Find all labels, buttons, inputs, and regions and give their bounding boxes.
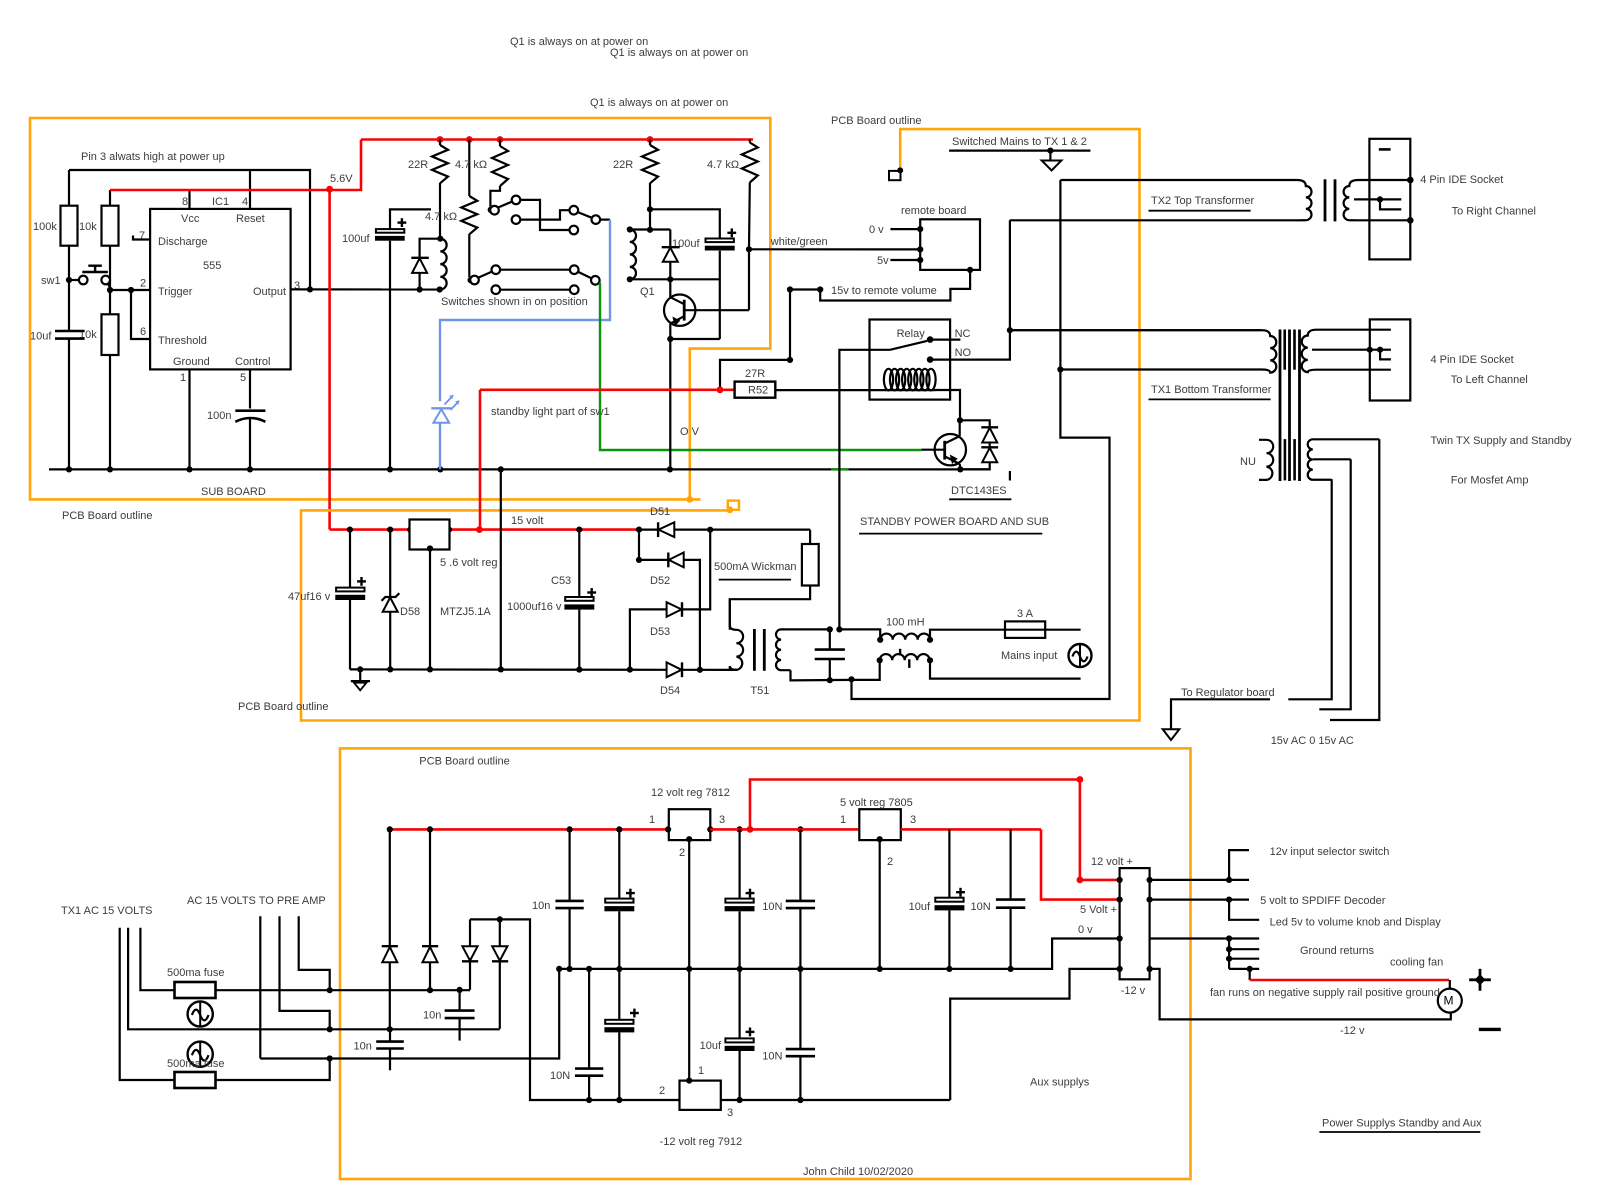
svg-text:For Mosfet Amp: For Mosfet Amp xyxy=(1451,474,1529,486)
svg-text:sw1: sw1 xyxy=(41,275,61,287)
node remote bottom pin xyxy=(967,267,973,273)
node D52 cathode xyxy=(636,557,642,563)
transformer T51 secondary xyxy=(776,629,830,670)
node fan positive tap xyxy=(1247,966,1253,972)
pin 4 wire up xyxy=(249,170,251,209)
svg-text:10n: 10n xyxy=(532,900,550,912)
node switched mains tap xyxy=(1047,148,1053,154)
LED standby blue xyxy=(431,407,451,409)
node +raw rail dots xyxy=(567,826,573,832)
wire C53 bottom xyxy=(578,610,580,670)
svg-text:T51: T51 xyxy=(750,685,769,697)
regulator 7805 xyxy=(859,809,901,840)
svg-text:John Child 10/02/2020: John Child 10/02/2020 xyxy=(803,1166,913,1178)
transformer TX1 secondary xyxy=(1302,330,1391,372)
wire relay common from mains xyxy=(839,350,890,630)
wire TX1 lead A xyxy=(140,928,174,990)
transistor DTC143ES xyxy=(935,434,966,465)
node D2 top xyxy=(427,826,433,832)
wire green overlay on 0V rail xyxy=(831,468,849,470)
diode flyback left xyxy=(420,239,441,258)
svg-text:Discharge: Discharge xyxy=(158,236,208,248)
pin 2 wire xyxy=(110,289,150,291)
wire remote 0v stub xyxy=(890,228,920,230)
resistor 4.7k right (base) xyxy=(742,143,758,183)
svg-text:Q1 is always on at power on: Q1 is always on at power on xyxy=(610,47,748,59)
wire choke bottom left xyxy=(852,660,880,680)
wire sw1a crossover B xyxy=(520,210,569,219)
svg-text:Output: Output xyxy=(253,286,286,298)
node -12 rail dots xyxy=(586,1097,592,1103)
resistor R52 27R xyxy=(735,382,776,398)
switch spare row contacts xyxy=(492,285,501,294)
wire mains top to choke xyxy=(839,629,880,638)
wire 15v to remote volume net xyxy=(820,270,970,301)
wire TX1 top line xyxy=(1010,329,1262,331)
svg-text:Ground returns: Ground returns xyxy=(1300,945,1374,957)
svg-text:white/green: white/green xyxy=(770,236,828,248)
node 15v remote A xyxy=(787,286,793,292)
svg-text:Led 5v to volume knob and Disp: Led 5v to volume knob and Display xyxy=(1270,916,1442,928)
wire 100uf top lead xyxy=(390,209,431,229)
node choke bottom terminals xyxy=(877,657,883,663)
node 5v branch xyxy=(1226,897,1232,903)
node TX1 tap dots xyxy=(1367,347,1373,353)
wire mains live out xyxy=(1045,629,1080,631)
diode D4 xyxy=(499,919,501,946)
diode flyback right xyxy=(669,230,671,248)
PCB board outline - standby power board xyxy=(301,129,1140,720)
svg-text:Q1 is always on at power on: Q1 is always on at power on xyxy=(590,97,728,109)
wire 100uf right bottom lead xyxy=(719,251,721,339)
svg-text:1: 1 xyxy=(698,1065,704,1077)
pin 3 output wire xyxy=(291,288,440,290)
fuse 500ma lower xyxy=(175,1072,216,1088)
wire choke top to fuse xyxy=(930,630,1005,640)
wire 10n A lower stub xyxy=(459,1018,461,1041)
wire TX2-top to TX1-bottom riser xyxy=(852,180,1110,699)
wire fuse lower out xyxy=(216,1059,330,1080)
svg-text:Control: Control xyxy=(235,356,270,368)
resistor 100k xyxy=(61,206,78,246)
wire red 15 volt rail xyxy=(330,528,639,531)
wire to blue led net xyxy=(600,219,610,221)
svg-text:10N: 10N xyxy=(550,1070,570,1082)
connector aux output header xyxy=(1120,868,1150,979)
resistor 10k lower xyxy=(102,314,119,355)
svg-text:D58: D58 xyxy=(400,606,420,618)
wire AC rail 1 xyxy=(216,989,471,991)
svg-text:15 volt: 15 volt xyxy=(511,515,543,527)
svg-text:0 v: 0 v xyxy=(869,224,884,236)
svg-text:5 Volt +: 5 Volt + xyxy=(1080,904,1117,916)
wire 0V riser from sub board xyxy=(500,469,502,669)
transformer NU winding right xyxy=(1308,439,1380,479)
node red 12v corners xyxy=(1077,776,1084,783)
svg-text:1: 1 xyxy=(649,814,655,826)
node 7805 pin2 xyxy=(877,836,883,842)
svg-text:47uf16 v: 47uf16 v xyxy=(288,591,331,603)
node TX2 tap xyxy=(1377,196,1383,202)
svg-text:100k: 100k xyxy=(33,221,57,233)
node coil right top xyxy=(627,226,633,232)
node mains neutral junction xyxy=(848,676,854,682)
wire choke bottom right xyxy=(930,660,1081,678)
wire wickman bottom to T51 xyxy=(730,586,810,630)
node T51 top junctions xyxy=(827,626,833,632)
ground symbol middle board xyxy=(357,666,363,672)
wire 7812 pin2 down to 0V and 7912 pin1 xyxy=(688,840,690,1081)
wire 15v net to R52 node xyxy=(720,290,790,391)
node Q1 emitter junction xyxy=(667,336,673,342)
wire relay coil right lead xyxy=(936,390,961,420)
svg-text:D53: D53 xyxy=(650,626,670,638)
wire 10n cap A stub xyxy=(459,990,461,1011)
node diode left anode xyxy=(417,286,423,292)
switch sw2 common contact xyxy=(468,277,475,284)
node D51 anode rail junction xyxy=(707,527,713,533)
node Q1 collector junction xyxy=(667,276,673,282)
wire red 12v+ to connector xyxy=(750,780,1120,880)
node D4 top junction xyxy=(497,916,503,922)
motor M cooling fan xyxy=(1438,989,1462,1013)
node 5.6V junction xyxy=(326,186,333,193)
wire filter cap bottom xyxy=(829,659,831,680)
svg-text:cooling fan: cooling fan xyxy=(1390,956,1443,968)
relay coil xyxy=(884,369,893,391)
switch sw1a common contact xyxy=(488,207,495,214)
svg-text:12v input selector switch: 12v input selector switch xyxy=(1270,846,1390,858)
wire trigger-threshold link xyxy=(131,290,150,339)
wire red 15 volt to R52 xyxy=(480,388,735,391)
node output junction xyxy=(307,286,313,292)
wire 10k top to 5.6V xyxy=(109,190,111,206)
node 0V riser junction xyxy=(498,666,504,672)
wire preamp lead 2 xyxy=(280,916,330,1029)
diode pair base-emitter xyxy=(960,420,990,427)
svg-text:NU: NU xyxy=(1240,456,1256,468)
wire base from resistor xyxy=(748,249,750,310)
wire C53 top xyxy=(578,530,580,597)
wire 22R to 100uf right xyxy=(650,209,720,238)
svg-text:1000uf16 v: 1000uf16 v xyxy=(507,601,562,613)
node TX1 bottom junction xyxy=(1057,366,1063,372)
wire 100k top xyxy=(68,170,70,206)
node trigger junction xyxy=(107,287,113,293)
svg-text:Aux supplys: Aux supplys xyxy=(1030,1076,1090,1088)
node relay arm contact xyxy=(927,336,934,343)
svg-text:100n: 100n xyxy=(207,410,231,422)
capacitor 100n xyxy=(235,409,265,412)
wire spare row xyxy=(500,289,570,291)
node relay NO contact xyxy=(927,356,934,363)
remote board box xyxy=(920,219,980,270)
svg-text:TX1 AC 15 VOLTS: TX1 AC 15 VOLTS xyxy=(61,905,153,917)
svg-text:4.7 kΩ: 4.7 kΩ xyxy=(455,159,487,171)
wire 10k lower to ground xyxy=(109,355,111,469)
node D53 anode xyxy=(627,667,633,673)
svg-text:Mains input: Mains input xyxy=(1001,650,1057,662)
svg-text:10k: 10k xyxy=(79,221,97,233)
wire LED to ground xyxy=(439,423,441,469)
svg-text:6: 6 xyxy=(140,326,146,338)
node AC rail3 junction xyxy=(327,1055,333,1061)
minus terminal mark xyxy=(1479,1028,1501,1031)
svg-text:4 Pin IDE Socket: 4 Pin IDE Socket xyxy=(1431,354,1514,366)
svg-text:-12 volt reg 7912: -12 volt reg 7912 xyxy=(660,1136,743,1148)
PCB board outline - bottom aux board xyxy=(340,748,1191,1179)
node red rail junctions xyxy=(437,136,444,143)
svg-text:Q1: Q1 xyxy=(640,286,655,298)
node 12v branch xyxy=(1226,877,1232,883)
wire -12 rail xyxy=(721,1099,950,1101)
svg-text:3: 3 xyxy=(910,814,916,826)
svg-text:12 volt +: 12 volt + xyxy=(1091,856,1133,868)
wire 10uf to ground xyxy=(68,339,70,470)
node DTC emitter xyxy=(957,466,963,472)
wire TX2 secondary tap xyxy=(1354,199,1401,209)
wire remote 5v stub xyxy=(890,259,920,261)
svg-text:0 v: 0 v xyxy=(1078,924,1093,936)
svg-text:Relay: Relay xyxy=(897,328,926,340)
AC source symbol 1 xyxy=(188,1001,213,1026)
contact sw2 right xyxy=(570,265,579,274)
wire +rail top red xyxy=(361,138,753,141)
connector 4 pin IDE socket right channel xyxy=(1369,139,1410,260)
wire pin3-high net top xyxy=(69,170,310,289)
svg-text:O V: O V xyxy=(680,426,700,438)
node 15v rail red junction xyxy=(476,526,483,533)
resistor 4.7k middle-left xyxy=(461,196,477,234)
wire NU sec 3 xyxy=(1288,479,1331,699)
transformer TX2 primary xyxy=(1010,180,1312,220)
transformer T51 core xyxy=(753,629,756,671)
wire ground return stubs xyxy=(1228,939,1230,969)
wire 12v output to selector xyxy=(1150,879,1249,881)
wire Q1 emitter xyxy=(669,324,671,339)
capacitor 10n across 7812 input xyxy=(568,829,570,901)
diode D3 xyxy=(469,919,471,946)
pin 7 stub xyxy=(133,236,150,240)
svg-text:AC 15 VOLTS TO PRE AMP: AC 15 VOLTS TO PRE AMP xyxy=(187,895,326,907)
node choke top terminals xyxy=(877,637,883,643)
plus terminal mark xyxy=(1469,978,1491,981)
svg-text:8: 8 xyxy=(182,196,188,208)
wire 100k bottom to sw1 xyxy=(68,246,70,280)
svg-text:10n: 10n xyxy=(354,1040,372,1052)
node coil left bottom xyxy=(437,286,443,292)
switch sw1b pole contact xyxy=(570,206,579,215)
wire 12v selector stub xyxy=(1229,850,1249,880)
svg-text:500mA Wickman: 500mA Wickman xyxy=(714,561,797,573)
svg-text:2: 2 xyxy=(887,856,893,868)
wire 5.6V red net xyxy=(110,140,361,191)
transformer TX2 core xyxy=(1324,179,1327,221)
wire coil top link xyxy=(630,228,671,230)
node C53 bottom xyxy=(576,667,582,673)
transformer T51 primary xyxy=(729,599,731,627)
svg-text:10N: 10N xyxy=(762,1050,782,1062)
switch sw2 arm xyxy=(478,272,492,278)
wire coil bottom link xyxy=(630,278,720,280)
wire TX1 lead B (centre) xyxy=(128,928,390,1030)
wire 47uf top xyxy=(349,530,351,588)
svg-text:5: 5 xyxy=(240,372,246,384)
wire 0V rail middle board xyxy=(349,668,351,671)
node ground returns chain xyxy=(1226,935,1232,941)
wire 22R link down xyxy=(649,209,651,230)
svg-text:22R: 22R xyxy=(408,159,428,171)
transformer TX2 secondary xyxy=(1344,180,1410,220)
wire 5v output xyxy=(1150,898,1249,900)
wire fan positive red xyxy=(1249,969,1251,980)
node filter cap bottom xyxy=(827,677,833,683)
svg-text:1: 1 xyxy=(840,814,846,826)
wire relay NC stub xyxy=(930,339,960,341)
svg-text:5 .6 volt reg: 5 .6 volt reg xyxy=(440,557,497,569)
wire R52 to relay coil xyxy=(775,389,935,391)
transformer TX1 primary xyxy=(1010,330,1276,372)
svg-text:5 volt to SPDIFF Decoder: 5 volt to SPDIFF Decoder xyxy=(1260,895,1386,907)
wire TX1 lead C xyxy=(120,928,174,1080)
capacitor electrolytic 7812 input xyxy=(626,892,635,894)
resistor 10k upper xyxy=(102,206,119,246)
switch sw2b arm xyxy=(578,272,591,278)
svg-text:2: 2 xyxy=(659,1085,665,1097)
svg-text:NO: NO xyxy=(955,347,972,359)
relay box xyxy=(870,320,951,400)
svg-text:500ma fuse: 500ma fuse xyxy=(167,967,224,979)
node connector right pins xyxy=(1147,877,1153,883)
resistor 22R left xyxy=(432,145,448,183)
resistor 4.7k switch top xyxy=(492,146,508,186)
svg-text:100 mH: 100 mH xyxy=(886,616,925,628)
svg-text:standby light part of sw1: standby light part of sw1 xyxy=(491,406,610,418)
svg-text:M: M xyxy=(1444,993,1454,1007)
node 15v rail dots xyxy=(347,527,353,533)
node mid rail junctions xyxy=(556,966,562,972)
svg-text:DTC143ES: DTC143ES xyxy=(951,485,1007,497)
diode D1 xyxy=(389,829,391,946)
fuse 500ma upper xyxy=(175,982,216,998)
wire 4.7k to switch common xyxy=(490,186,500,207)
svg-text:remote board: remote board xyxy=(901,205,966,217)
svg-text:fan runs on negative supply ra: fan runs on negative supply rail positiv… xyxy=(1210,987,1440,999)
wire 47uf bottom xyxy=(349,600,351,670)
svg-text:Ground: Ground xyxy=(173,356,210,368)
svg-text:10N: 10N xyxy=(971,901,991,913)
svg-text:-12 v: -12 v xyxy=(1121,985,1146,997)
node D1 top xyxy=(387,826,393,832)
svg-text:Vcc: Vcc xyxy=(181,213,200,225)
svg-text:D51: D51 xyxy=(650,506,670,518)
AC source mains input symbol xyxy=(1069,644,1092,667)
svg-text:2: 2 xyxy=(140,277,146,289)
svg-text:R52: R52 xyxy=(748,385,768,397)
svg-text:Reset: Reset xyxy=(236,213,265,225)
fuse 3A mains xyxy=(1005,621,1045,638)
svg-text:10uf: 10uf xyxy=(700,1040,722,1052)
svg-text:4 Pin IDE Socket: 4 Pin IDE Socket xyxy=(1420,174,1503,186)
regulator 7812 xyxy=(669,809,711,840)
inductor 100mH bottom winding xyxy=(880,654,930,660)
wire relay NO to switched mains xyxy=(930,330,1010,359)
pin 1 wire to ground rail xyxy=(188,369,190,469)
svg-text:2: 2 xyxy=(679,847,685,859)
wire Q1 base xyxy=(684,309,749,311)
pin 8 wire to 5.6V xyxy=(188,190,190,209)
svg-text:Pin 3 alwats high at power up: Pin 3 alwats high at power up xyxy=(81,151,225,163)
wire white/green to remote xyxy=(749,248,920,250)
wire 10k bottom to trigger xyxy=(109,246,111,290)
svg-text:To Left Channel: To Left Channel xyxy=(1451,374,1528,386)
node 22R right junctions xyxy=(647,206,653,212)
node ground rail junctions xyxy=(66,466,72,472)
diode D2 xyxy=(429,829,431,946)
svg-text:Trigger: Trigger xyxy=(158,286,193,298)
svg-text:4.7 kΩ: 4.7 kΩ xyxy=(425,211,457,223)
node white/green junction xyxy=(746,246,752,252)
wire reg bottom to 0V xyxy=(429,550,431,670)
svg-text:4: 4 xyxy=(242,196,248,208)
node DTC collector junction xyxy=(957,417,963,423)
node reg output pin xyxy=(427,545,433,551)
inductor coil left (relay coil of sw latch) xyxy=(440,239,446,290)
wire negative raw top link xyxy=(470,919,680,1100)
wire wickman top to rail xyxy=(809,530,811,544)
svg-text:Twin TX Supply and Standby: Twin TX Supply and Standby xyxy=(1431,435,1573,447)
wire preamp lead 3 xyxy=(299,916,330,990)
node AC rail2 junctions xyxy=(327,1026,333,1032)
wire red riser from R52 to 15volt rail xyxy=(479,390,482,530)
svg-text:5v: 5v xyxy=(877,255,889,267)
node switched mains junction xyxy=(1007,327,1013,333)
wire trigger to 10k lower xyxy=(109,290,111,315)
wire Q1 emitter to 0V xyxy=(669,339,671,469)
transformer TX1 core xyxy=(1279,330,1282,482)
node coil right bottom xyxy=(627,276,633,282)
IC U1 555 timer body xyxy=(150,209,291,370)
svg-text:4.7 kΩ: 4.7 kΩ xyxy=(707,159,739,171)
node 7812 pin2 xyxy=(686,836,692,842)
svg-text:15v AC 0 15v AC: 15v AC 0 15v AC xyxy=(1271,735,1354,747)
svg-text:IC1: IC1 xyxy=(212,196,229,208)
svg-text:C53: C53 xyxy=(551,575,571,587)
transformer NU core xyxy=(1284,439,1287,480)
AC source symbol 2 xyxy=(188,1042,213,1067)
regulator 5.6 volt reg box xyxy=(410,520,450,550)
switch sw1a arm xyxy=(498,202,513,208)
svg-text:5 volt reg 7805: 5 volt reg 7805 xyxy=(840,797,913,809)
pin 5 wire to 100n xyxy=(249,369,251,408)
wire filter cap top xyxy=(829,629,831,649)
svg-text:555: 555 xyxy=(203,260,221,272)
svg-text:Power Supplys Standby and Aux: Power Supplys Standby and Aux xyxy=(1322,1117,1482,1129)
svg-text:To Right Channel: To Right Channel xyxy=(1452,205,1536,217)
node red riser junction xyxy=(747,826,754,833)
wire green switch to DTC base xyxy=(600,283,922,451)
svg-text:PCB Board outline: PCB Board outline xyxy=(238,701,329,713)
capacitor electrolytic neg xyxy=(630,1012,639,1014)
svg-text:12 volt reg 7812: 12 volt reg 7812 xyxy=(651,787,730,799)
svg-text:27R: 27R xyxy=(745,368,765,380)
wire 0V mid rail xyxy=(559,939,1119,969)
svg-text:PCB Board outline: PCB Board outline xyxy=(62,510,153,522)
svg-text:3: 3 xyxy=(727,1107,733,1119)
wire -12v to fan xyxy=(1150,969,1451,1020)
wire red 7812 out xyxy=(710,828,859,831)
svg-text:Threshold: Threshold xyxy=(158,335,207,347)
